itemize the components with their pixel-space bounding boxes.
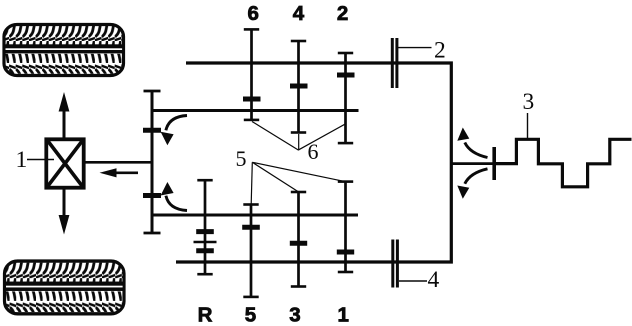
svg-text:R: R — [198, 303, 213, 326]
svg-text:4: 4 — [428, 267, 440, 293]
svg-text:4: 4 — [293, 2, 305, 25]
svg-text:1: 1 — [16, 147, 28, 173]
svg-text:3: 3 — [289, 303, 300, 326]
svg-text:5: 5 — [245, 303, 256, 326]
svg-text:5: 5 — [236, 146, 247, 171]
svg-text:2: 2 — [337, 2, 348, 25]
svg-text:2: 2 — [434, 37, 446, 63]
svg-text:1: 1 — [337, 303, 348, 326]
svg-text:6: 6 — [247, 2, 258, 25]
svg-text:6: 6 — [308, 139, 319, 164]
svg-text:3: 3 — [523, 89, 535, 115]
